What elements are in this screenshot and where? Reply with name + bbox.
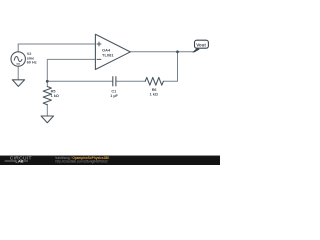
svg-text:1 kΩ: 1 kΩ	[51, 94, 59, 98]
svg-text:1 µF: 1 µF	[110, 94, 118, 98]
svg-text:1 kΩ: 1 kΩ	[150, 93, 158, 97]
svg-text:C1: C1	[111, 90, 116, 94]
svg-text:R6: R6	[152, 88, 157, 92]
svg-text:60 Hz: 60 Hz	[27, 61, 37, 65]
svg-text:R5: R5	[51, 90, 56, 94]
svg-text:sine: sine	[27, 56, 35, 60]
svg-text:V2: V2	[27, 52, 32, 56]
svg-text:http://circuitlab.com/c/5u4g64: http://circuitlab.com/c/5u4g6487b6d2	[56, 159, 108, 163]
svg-text:Vout: Vout	[196, 42, 206, 47]
svg-text:TL081: TL081	[102, 52, 114, 57]
